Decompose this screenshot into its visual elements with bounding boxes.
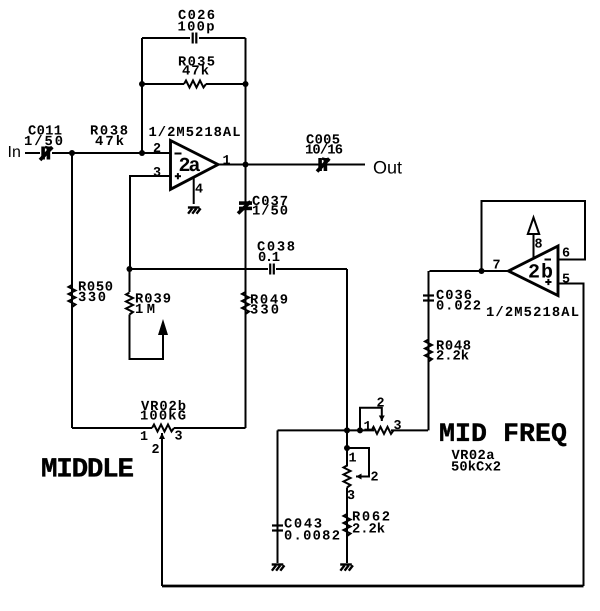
svg-text:330: 330	[250, 304, 279, 319]
svg-text:50kCx2: 50kCx2	[451, 461, 501, 476]
svg-text:7: 7	[493, 259, 501, 274]
svg-text:3: 3	[394, 419, 402, 434]
svg-text:8: 8	[535, 238, 543, 253]
svg-text:2: 2	[377, 397, 385, 412]
svg-text:4: 4	[195, 183, 203, 198]
svg-text:MIDDLE: MIDDLE	[41, 455, 134, 486]
svg-text:2: 2	[371, 471, 379, 486]
svg-text:47k: 47k	[95, 135, 124, 150]
svg-text:10/16: 10/16	[305, 144, 343, 159]
svg-text:1/2M5218AL: 1/2M5218AL	[486, 306, 579, 321]
svg-text:47k: 47k	[182, 65, 209, 80]
svg-text:1: 1	[349, 452, 357, 467]
svg-text:3: 3	[347, 489, 355, 504]
svg-text:1/50: 1/50	[24, 135, 63, 150]
svg-text:1/50: 1/50	[252, 205, 288, 220]
svg-text:0.022: 0.022	[436, 300, 481, 315]
svg-text:Out: Out	[373, 158, 402, 178]
svg-text:1: 1	[364, 420, 372, 435]
svg-text:3: 3	[153, 166, 161, 181]
svg-text:6: 6	[562, 247, 570, 262]
svg-text:1: 1	[140, 430, 148, 445]
svg-text:330: 330	[78, 291, 106, 306]
svg-text:In: In	[8, 144, 21, 161]
svg-text:1/2M5218AL: 1/2M5218AL	[149, 126, 241, 141]
svg-text:5: 5	[562, 273, 570, 288]
svg-text:2.2k: 2.2k	[352, 523, 385, 538]
svg-text:2.2k: 2.2k	[436, 350, 469, 365]
svg-text:MID FREQ: MID FREQ	[439, 419, 567, 449]
svg-text:2: 2	[153, 142, 161, 157]
svg-text:100kG: 100kG	[140, 410, 186, 425]
svg-text:1: 1	[223, 154, 231, 169]
svg-text:0.1: 0.1	[258, 251, 280, 266]
svg-text:2: 2	[152, 443, 160, 458]
svg-text:2a: 2a	[179, 155, 201, 178]
svg-text:3: 3	[175, 430, 183, 445]
svg-text:100p: 100p	[178, 21, 215, 36]
